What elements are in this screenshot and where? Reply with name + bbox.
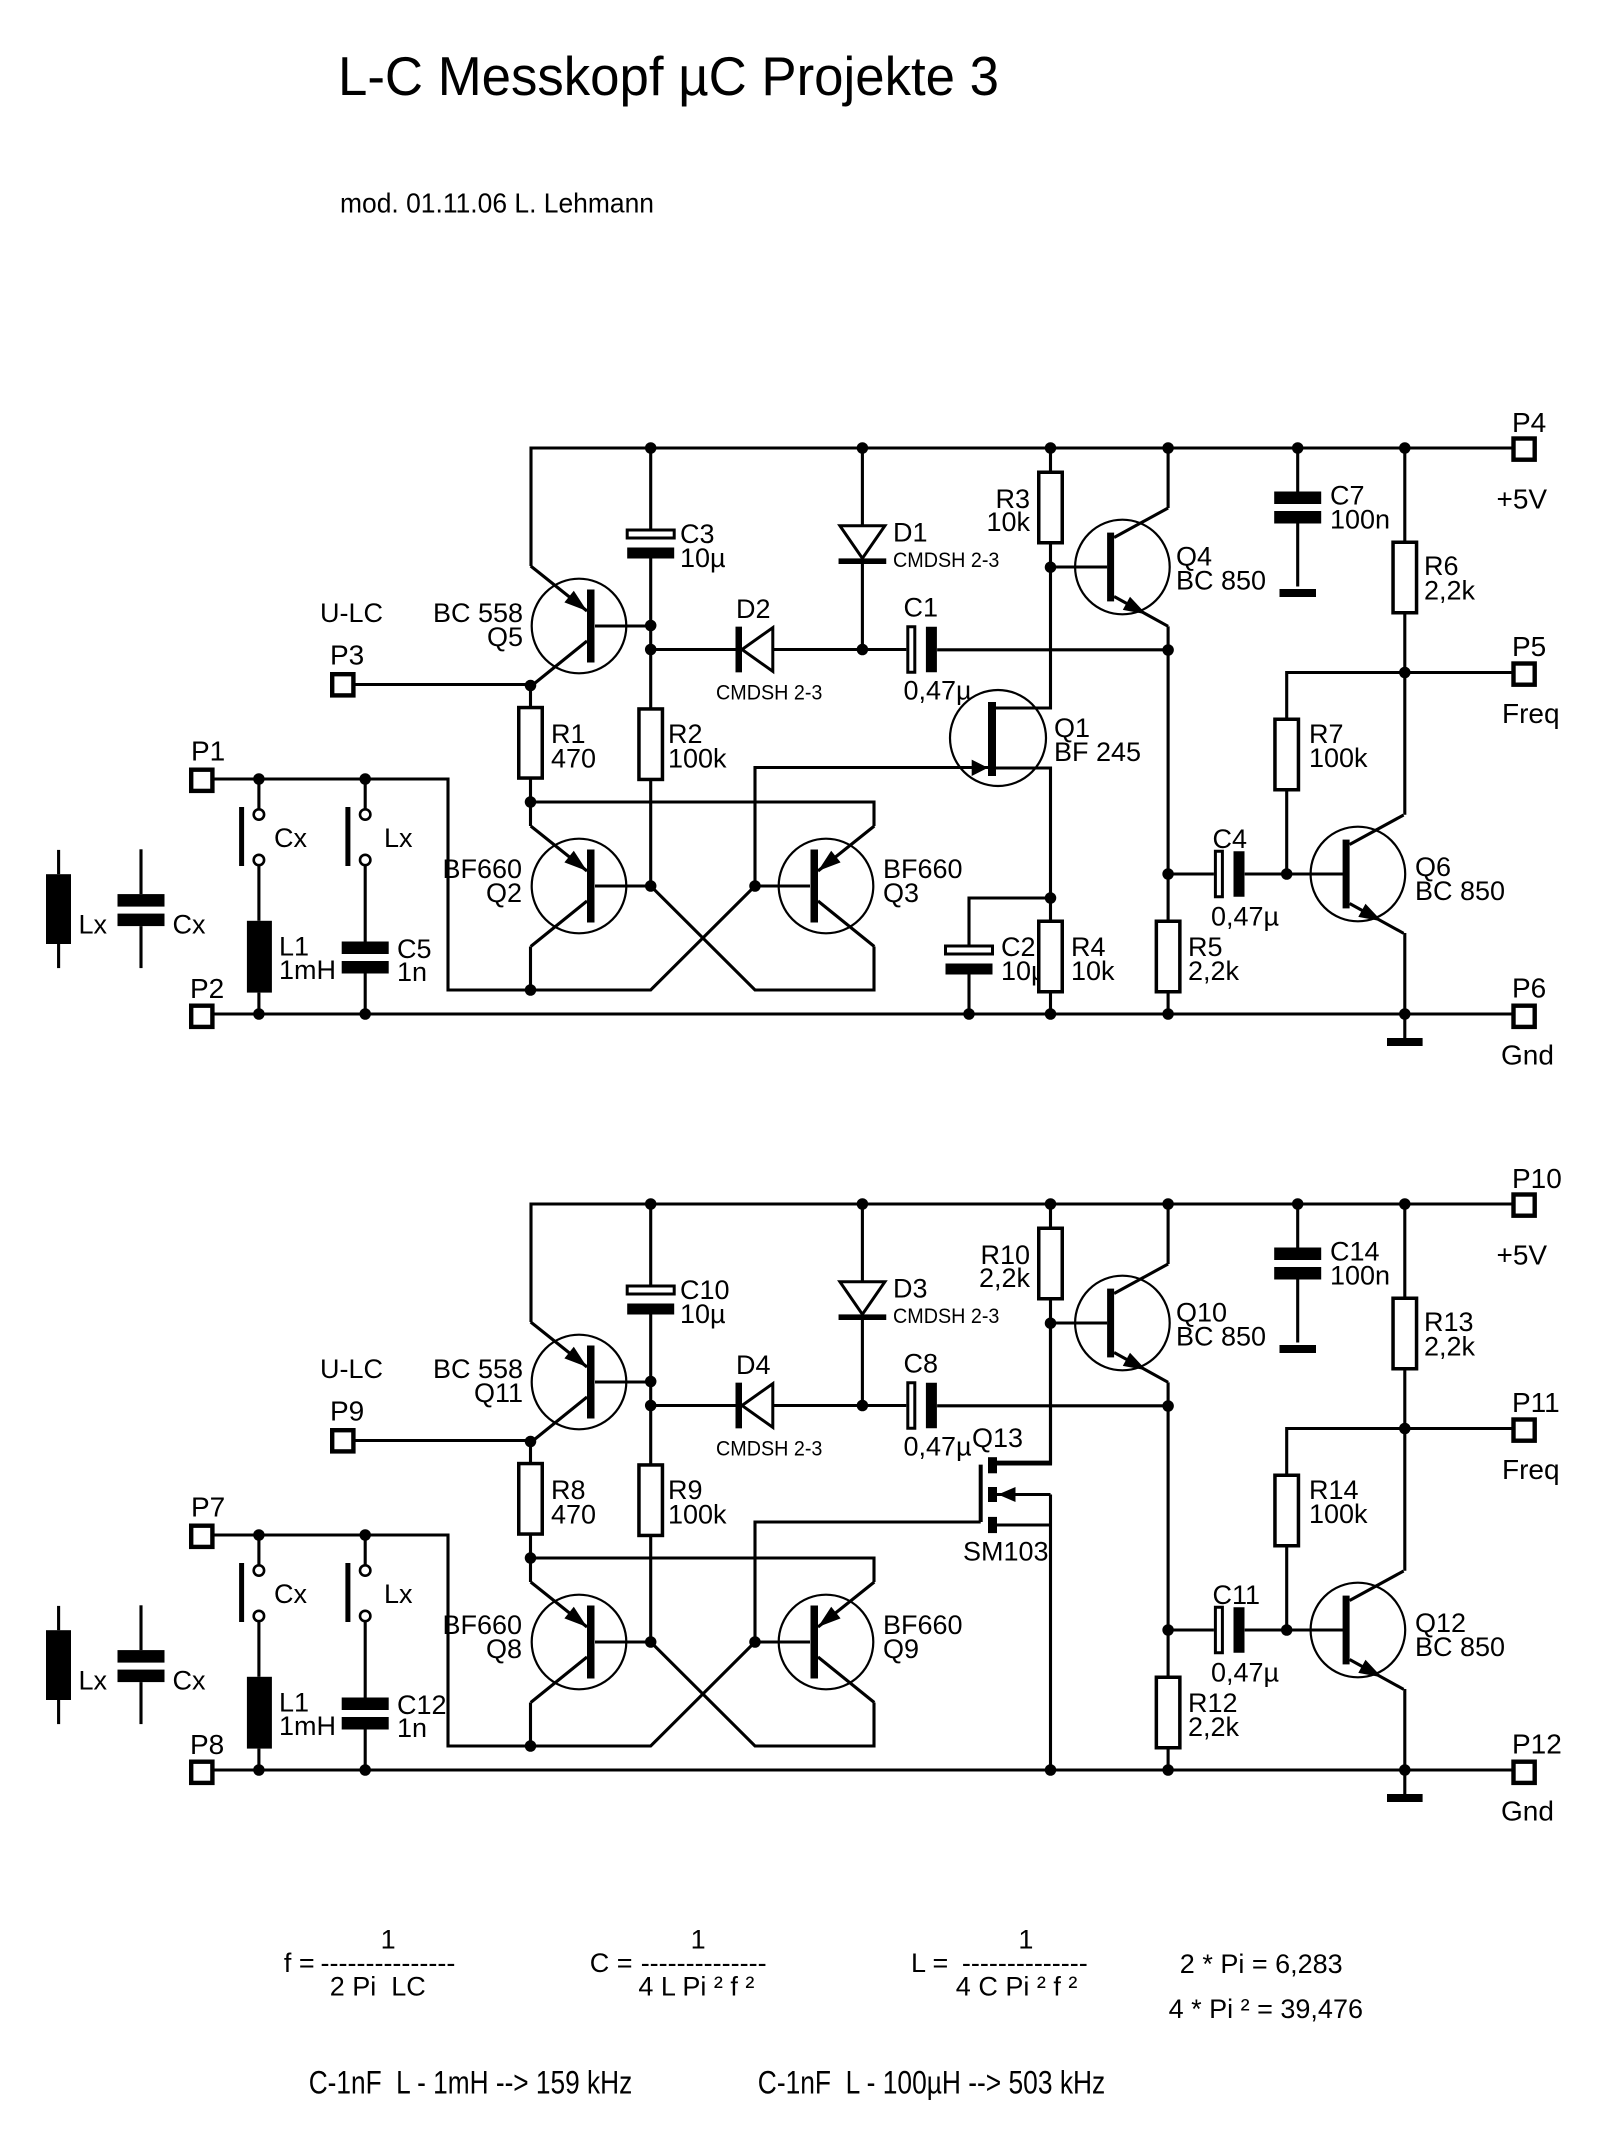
- svg-text:10µ: 10µ: [680, 1299, 726, 1329]
- svg-text:BC 850: BC 850: [1176, 1322, 1266, 1352]
- svg-text:P12: P12: [1512, 1728, 1562, 1759]
- svg-text:0,47µ: 0,47µ: [904, 1432, 972, 1462]
- svg-text:Lx: Lx: [384, 823, 413, 853]
- svg-text:P7: P7: [191, 1492, 225, 1523]
- svg-text:C-1nF L - 1mH --> 159 kHz: C-1nF L - 1mH --> 159 kHz: [309, 2064, 633, 2100]
- svg-text:L =: L =: [911, 1948, 948, 1978]
- svg-text:100n: 100n: [1330, 505, 1390, 535]
- svg-text:P2: P2: [190, 973, 224, 1004]
- svg-text:Lx: Lx: [384, 1579, 413, 1609]
- svg-text:2,2k: 2,2k: [1424, 576, 1476, 606]
- svg-text:Q5: Q5: [487, 622, 523, 652]
- svg-text:D4: D4: [736, 1350, 771, 1380]
- svg-text:2 Pi LC: 2 Pi LC: [330, 1971, 426, 2001]
- svg-text:Cx: Cx: [173, 910, 206, 940]
- svg-text:1: 1: [381, 1924, 396, 1954]
- svg-text:SM103: SM103: [963, 1537, 1049, 1567]
- svg-text:P9: P9: [330, 1396, 364, 1427]
- svg-text:+5V: +5V: [1497, 484, 1548, 515]
- svg-text:1: 1: [691, 1924, 706, 1954]
- svg-text:Q8: Q8: [486, 1634, 522, 1664]
- svg-text:100k: 100k: [1309, 1499, 1368, 1529]
- svg-text:BC 850: BC 850: [1176, 566, 1266, 596]
- svg-text:0,47µ: 0,47µ: [1211, 902, 1279, 932]
- svg-text:Gnd: Gnd: [1501, 1040, 1554, 1071]
- svg-text:Q13: Q13: [972, 1423, 1023, 1453]
- svg-text:Gnd: Gnd: [1501, 1796, 1554, 1827]
- svg-text:D2: D2: [736, 594, 771, 624]
- svg-text:CMDSH 2-3: CMDSH 2-3: [893, 1305, 999, 1328]
- svg-text:Q11: Q11: [474, 1378, 523, 1408]
- svg-text:CMDSH 2-3: CMDSH 2-3: [893, 549, 999, 572]
- svg-text:Freq: Freq: [1502, 698, 1560, 729]
- svg-text:Cx: Cx: [274, 1579, 307, 1609]
- svg-text:2,2k: 2,2k: [1188, 956, 1240, 986]
- svg-text:0,47µ: 0,47µ: [904, 676, 972, 706]
- svg-text:P10: P10: [1512, 1163, 1562, 1194]
- svg-text:C =: C =: [590, 1948, 633, 1978]
- svg-text:BC 850: BC 850: [1415, 1632, 1505, 1662]
- svg-text:BF 245: BF 245: [1054, 737, 1141, 767]
- svg-text:1: 1: [1018, 1924, 1033, 1954]
- svg-text:10µ: 10µ: [680, 543, 726, 573]
- svg-text:C1: C1: [904, 593, 939, 623]
- svg-text:Q3: Q3: [883, 878, 919, 908]
- svg-text:C11: C11: [1213, 1580, 1261, 1610]
- svg-text:P6: P6: [1512, 972, 1546, 1003]
- svg-text:1mH: 1mH: [279, 1711, 336, 1741]
- svg-text:100k: 100k: [668, 744, 727, 774]
- svg-text:CMDSH 2-3: CMDSH 2-3: [716, 1438, 822, 1461]
- svg-text:2 * Pi = 6,283: 2 * Pi = 6,283: [1180, 1949, 1343, 1979]
- svg-text:C8: C8: [904, 1349, 939, 1379]
- svg-text:Cx: Cx: [173, 1666, 206, 1696]
- svg-text:Lx: Lx: [79, 910, 108, 940]
- svg-text:Lx: Lx: [79, 1666, 108, 1696]
- svg-text:D1: D1: [893, 518, 928, 548]
- svg-text:4 C Pi ² f ²: 4 C Pi ² f ²: [956, 1971, 1078, 2001]
- svg-text:P1: P1: [191, 736, 225, 767]
- svg-text:2,2k: 2,2k: [979, 1263, 1031, 1293]
- svg-text:P5: P5: [1512, 631, 1546, 662]
- svg-text:U-LC: U-LC: [320, 1354, 383, 1384]
- svg-text:f =: f =: [284, 1948, 315, 1978]
- svg-text:2,2k: 2,2k: [1424, 1332, 1476, 1362]
- svg-text:0,47µ: 0,47µ: [1211, 1658, 1279, 1688]
- svg-text:L-C Messkopf µC Projekte 3: L-C Messkopf µC Projekte 3: [338, 45, 999, 107]
- svg-text:100k: 100k: [668, 1500, 727, 1530]
- svg-text:P8: P8: [190, 1729, 224, 1760]
- svg-text:D3: D3: [893, 1274, 928, 1304]
- svg-text:mod. 01.11.06 L. Lehmann: mod. 01.11.06 L. Lehmann: [340, 188, 654, 219]
- svg-text:470: 470: [551, 744, 596, 774]
- svg-text:2,2k: 2,2k: [1188, 1712, 1240, 1742]
- svg-text:4 L Pi ² f ²: 4 L Pi ² f ²: [638, 1971, 754, 2001]
- svg-text:470: 470: [551, 1500, 596, 1530]
- svg-text:C4: C4: [1213, 824, 1248, 854]
- svg-text:Q2: Q2: [486, 878, 522, 908]
- svg-text:100k: 100k: [1309, 743, 1368, 773]
- svg-text:CMDSH 2-3: CMDSH 2-3: [716, 682, 822, 705]
- svg-text:Freq: Freq: [1502, 1454, 1560, 1485]
- svg-text:BC 850: BC 850: [1415, 876, 1505, 906]
- svg-text:P3: P3: [330, 640, 364, 671]
- svg-text:4 * Pi ² = 39,476: 4 * Pi ² = 39,476: [1169, 1994, 1363, 2024]
- svg-text:10k: 10k: [1071, 956, 1115, 986]
- svg-text:P4: P4: [1512, 407, 1546, 438]
- svg-text:1n: 1n: [397, 957, 427, 987]
- svg-text:+5V: +5V: [1497, 1240, 1548, 1271]
- svg-text:C-1nF L - 100µH --> 503 kHz: C-1nF L - 100µH --> 503 kHz: [758, 2064, 1105, 2100]
- svg-text:1mH: 1mH: [279, 955, 336, 985]
- svg-text:10k: 10k: [986, 507, 1030, 537]
- svg-text:U-LC: U-LC: [320, 598, 383, 628]
- svg-text:Q9: Q9: [883, 1634, 919, 1664]
- svg-text:Cx: Cx: [274, 823, 307, 853]
- svg-text:P11: P11: [1512, 1387, 1560, 1418]
- svg-text:100n: 100n: [1330, 1261, 1390, 1291]
- svg-text:1n: 1n: [397, 1713, 427, 1743]
